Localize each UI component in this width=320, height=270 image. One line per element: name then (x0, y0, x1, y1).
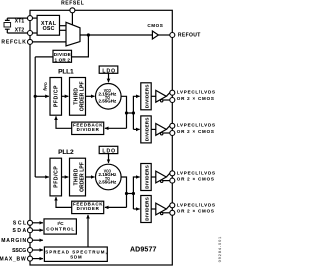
junction VCO PLL2 node B (132, 192, 135, 195)
svg-text:AD9577: AD9577 (130, 247, 157, 254)
svg-text:XT1: XT1 (15, 19, 25, 25)
svg-text:REFOUT: REFOUT (178, 33, 200, 39)
pin SCL (28, 220, 33, 225)
pin OUT2 negative (170, 131, 175, 136)
block DIVIDERS PLL2 bottom (141, 196, 151, 223)
pin OUT4 positive (170, 203, 175, 208)
svg-text:REFSEL: REFSEL (61, 0, 84, 6)
wire VCO to FEEDBACK DIVIDER PLL1 (105, 127, 127, 129)
wire VCO to FEEDBACK DIVIDER PLL2 (105, 206, 127, 208)
wire FEEDBACK DIVIDER to PFD/CP PLL2 (56, 197, 72, 207)
svg-text:DIVIDERS: DIVIDERS (145, 85, 150, 109)
wire XT2 to XTAL OSC (33, 32, 38, 34)
block PFD/CP PLL2 (50, 158, 62, 196)
svg-text:LVPECL/LVDS: LVPECL/LVDS (177, 202, 215, 207)
buffer output driver 4 (151, 203, 170, 215)
svg-text:PFD/CP: PFD/CP (53, 85, 59, 107)
svg-text:OR 2 × CMOS: OR 2 × CMOS (177, 176, 214, 181)
svg-text:2.55GHz: 2.55GHz (99, 99, 117, 104)
svg-text:MAX_BW: MAX_BW (0, 256, 26, 262)
svg-text:DIVIDERS: DIVIDERS (145, 118, 150, 142)
wire dividers feed PLL2 (133, 177, 139, 209)
block THIRD ORDER LPF PLL2 (70, 158, 86, 196)
label OUT2 type (177, 123, 215, 134)
pin OUT3 negative (170, 178, 175, 183)
pin OUT1 negative (170, 98, 175, 103)
wire LDO to VCO PLL1 (108, 73, 110, 82)
crystal Y1 (4, 18, 11, 33)
block PFD/CP PLL1 (50, 78, 62, 116)
junction VCO PLL1 node A (125, 111, 128, 114)
label OUT1 type (177, 90, 215, 101)
label OUT3 type (177, 170, 215, 181)
svg-text:PFD/CP: PFD/CP (53, 166, 59, 188)
chip outline AD9577 (30, 10, 172, 265)
wire XT2 to crystal (7, 32, 27, 34)
wire MARGIN arrow (33, 239, 43, 241)
svg-text:SCL: SCL (13, 221, 26, 227)
wire node A to node B PLL1 (127, 112, 134, 114)
svg-text:PLL1: PLL1 (58, 69, 74, 76)
wire mux to CMOS buffer (80, 34, 152, 36)
svg-text:DIVIDER: DIVIDER (77, 127, 100, 132)
wire node to DIVIDE 1 OR 2 (72, 35, 89, 57)
svg-text:DIVIDERS: DIVIDERS (145, 197, 150, 221)
svg-text:OSC: OSC (43, 26, 55, 32)
svg-text:PLL2: PLL2 (58, 149, 74, 156)
svg-text:LVPECL/LVDS: LVPECL/LVDS (177, 170, 215, 175)
pin XT2 (28, 31, 33, 36)
svg-text:ORDER LPF: ORDER LPF (79, 162, 85, 192)
pin OUT2 positive (170, 123, 175, 128)
regulator LDO PLL1 (99, 66, 118, 74)
svg-text:fPFD: fPFD (42, 82, 48, 91)
block I2C CONTROL (44, 219, 76, 234)
oscillator VCO PLL1 (96, 84, 122, 110)
svg-text:I²C: I²C (57, 221, 64, 226)
pin REFSEL (70, 8, 75, 13)
pin MARGIN (28, 238, 33, 243)
pin OUT1 positive (170, 90, 175, 95)
wire SCL to I2C control (33, 222, 43, 224)
svg-text:SSCG: SSCG (12, 248, 26, 254)
wire XT1 to XTAL OSC (33, 17, 38, 19)
oscillator VCO PLL2 (96, 164, 122, 190)
wire REFSEL to mux (71, 13, 73, 25)
wire node A to node B PLL2 (127, 193, 134, 195)
junction mux output node (87, 33, 90, 36)
wire FEEDBACK DIVIDER to PFD/CP PLL1 (56, 116, 72, 128)
block THIRD ORDER LPF PLL1 (70, 78, 86, 116)
svg-text:OR 2 × CMOS: OR 2 × CMOS (177, 208, 214, 213)
svg-text:CMOS: CMOS (147, 23, 162, 28)
regulator LDO PLL2 (99, 146, 118, 154)
pin OUT3 positive (170, 171, 175, 176)
pin REFCLK (28, 39, 33, 44)
junction VCO PLL1 node B (132, 111, 135, 114)
pin REFOUT (170, 33, 175, 38)
block DIVIDERS PLL2 top (141, 164, 151, 191)
svg-text:SDM: SDM (70, 255, 82, 260)
block SPREAD SPECTRUM SDM (44, 247, 107, 261)
wire PFD/CP to LPF PLL2 (62, 176, 69, 178)
block DIVIDERS PLL1 bottom (141, 116, 151, 143)
pin SDA (28, 228, 33, 233)
divider FEEDBACK DIVIDER PLL2 (72, 201, 104, 213)
svg-text:LVPECL/LVDS: LVPECL/LVDS (177, 123, 215, 128)
wire REFCLK to mux (33, 41, 74, 43)
svg-text:DIVIDE: DIVIDE (54, 52, 71, 57)
junction VCO PLL2 node A (125, 192, 128, 195)
svg-text:DIVIDER: DIVIDER (77, 206, 100, 211)
svg-text:OR 2 × CMOS: OR 2 × CMOS (177, 129, 214, 134)
wire into lower DIVIDERS PLL2 (133, 208, 139, 210)
pin MAX_BW (28, 256, 33, 261)
wire LDO to VCO PLL2 (108, 154, 110, 163)
buffer output driver 3 (151, 171, 170, 183)
wire XT1 to crystal (7, 17, 27, 19)
wire PFD/CP to LPF PLL1 (62, 95, 69, 97)
wire SSCG to spread spectrum (33, 249, 43, 251)
svg-text:MARGIN: MARGIN (1, 238, 26, 244)
svg-text:CONTROL: CONTROL (46, 227, 74, 232)
wire XTAL OSC out A to mux (60, 25, 67, 27)
divider DIVIDE 1 OR 2 (53, 50, 72, 62)
svg-text:1 OR 2: 1 OR 2 (54, 57, 70, 62)
svg-text:REFCLK: REFCLK (1, 40, 26, 46)
wire VCO PLL2 output (121, 177, 126, 207)
wire into lower DIVIDERS PLL1 (133, 128, 139, 130)
wire DIVIDE 1 OR 2 to fPFD rail (35, 56, 53, 58)
wire MAX_BW to spread spectrum (33, 258, 43, 260)
svg-text:XT2: XT2 (15, 27, 25, 33)
wire dividers feed PLL1 (133, 96, 139, 129)
divider FEEDBACK DIVIDER PLL1 (72, 122, 104, 134)
svg-text:OR 2 × CMOS: OR 2 × CMOS (177, 96, 214, 101)
buffer output driver 1 (151, 90, 170, 102)
label OUT4 type (177, 202, 215, 213)
buffer CMOS refout (152, 31, 158, 39)
svg-text:09284-001: 09284-001 (218, 237, 222, 263)
svg-text:ORDER LPF: ORDER LPF (79, 81, 85, 111)
svg-text:LVPECL/LVDS: LVPECL/LVDS (177, 90, 215, 95)
svg-text:2.55GHz: 2.55GHz (99, 179, 117, 184)
pin SSCG (28, 248, 33, 253)
wire SDA to I2C control (33, 229, 43, 231)
wire SDM to FEEDBACK DIVIDER PLL2 (87, 215, 89, 247)
wire CMOS buffer to REFOUT (158, 34, 169, 36)
svg-text:SDA: SDA (13, 228, 27, 234)
wire LPF to VCO PLL1 (86, 95, 95, 97)
buffer output driver 2 (151, 124, 170, 136)
wire XTAL OSC out B to mux (60, 29, 67, 31)
wire LPF to VCO PLL2 (86, 176, 95, 178)
svg-text:DIVIDERS: DIVIDERS (145, 165, 150, 189)
wire VCO PLL1 output (121, 96, 126, 128)
wire fPFD into PFD/CP PLL1 (35, 95, 49, 97)
mux reference select (66, 22, 80, 46)
pin OUT4 negative (170, 210, 175, 215)
junction fPFD to PLL1 (34, 95, 37, 98)
wire fPFD into PFD/CP PLL2 (35, 176, 49, 178)
pin XT1 (28, 16, 33, 21)
block DIVIDERS PLL1 top (141, 83, 151, 110)
oscillator XTAL OSC (37, 15, 59, 35)
wire fPFD rail (34, 57, 36, 177)
